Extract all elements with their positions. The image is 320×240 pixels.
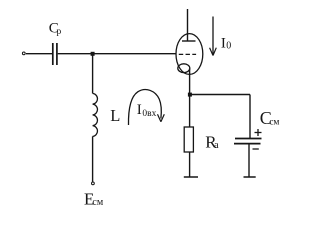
triode anode lead (187, 9, 189, 41)
svg-text:L: L (110, 106, 120, 125)
terminal stub under Csm (244, 176, 256, 178)
svg-text:см: см (269, 118, 279, 128)
wire input to Cp (26, 53, 52, 55)
capacitor Cp (53, 43, 57, 65)
label Cp (49, 20, 62, 37)
wire Csm bottom plate down (248, 144, 250, 177)
label Esm (84, 189, 104, 208)
wire Cp to triode grid (58, 53, 177, 55)
triode cathode loop (178, 64, 190, 73)
triode U1 envelope (176, 34, 203, 75)
wire junction down to inductor (92, 54, 94, 94)
polarity plus (255, 129, 262, 136)
current arrow I0 (210, 17, 217, 56)
svg-text:р: р (57, 27, 62, 37)
wire inductor to Esm terminal (92, 136, 94, 181)
label I0 (221, 35, 231, 51)
resistor Ra (184, 127, 193, 152)
polarity minus (253, 148, 259, 150)
wire cathode junction to Ra (189, 95, 191, 128)
node grid junction (91, 52, 95, 56)
node cathode junction (188, 93, 192, 97)
terminal stub under Ra (184, 176, 198, 178)
triode grid (dashed) (179, 53, 196, 55)
svg-text:0вх: 0вх (142, 109, 156, 119)
svg-text:см: см (92, 197, 103, 208)
inductor L (93, 93, 98, 136)
terminal Esm (92, 182, 95, 185)
wire cathode junction to Csm (190, 94, 250, 96)
svg-text:0: 0 (226, 41, 231, 52)
svg-text:а: а (214, 140, 219, 151)
triode anode plate (182, 40, 196, 42)
triode cathode lead (189, 69, 191, 95)
label I0вх (137, 102, 157, 119)
wire Ra down (189, 152, 191, 177)
label Csm (260, 108, 280, 128)
svg-text:I: I (137, 102, 142, 118)
input terminal (22, 52, 25, 55)
svg-text:I: I (221, 35, 226, 51)
wire down to Csm top plate (249, 95, 251, 139)
label Ra (205, 133, 219, 152)
circulating current arrow I0вх (128, 90, 164, 125)
capacitor Csm (234, 139, 262, 144)
